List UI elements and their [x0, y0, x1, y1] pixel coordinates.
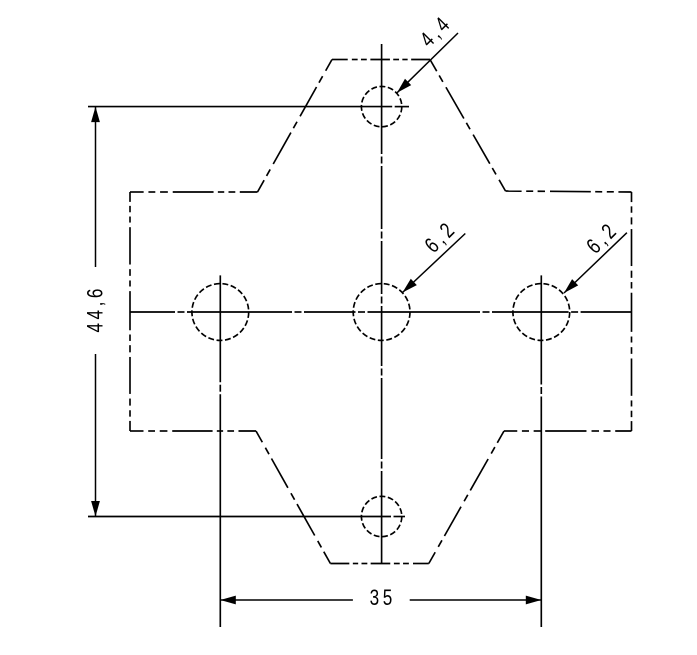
svg-text:44,6: 44,6: [83, 285, 108, 332]
svg-text:35: 35: [370, 586, 396, 611]
